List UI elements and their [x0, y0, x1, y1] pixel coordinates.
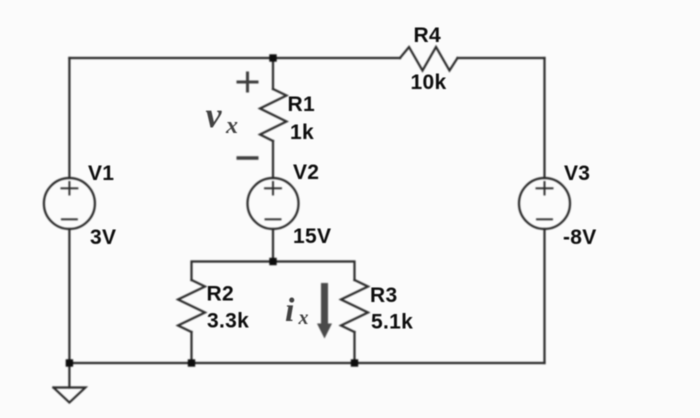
current arrow ix	[317, 283, 332, 339]
junction R2 bottom	[188, 359, 195, 366]
svg-text:1k: 1k	[290, 121, 314, 144]
wire top rail left	[69, 57, 273, 59]
ground stub	[68, 363, 70, 388]
svg-text:i: i	[285, 292, 295, 329]
wire left branch lower	[68, 229, 70, 363]
wire top rail right	[458, 57, 545, 59]
svg-text:x: x	[225, 113, 238, 139]
svg-text:5.1k: 5.1k	[371, 311, 413, 334]
wire R1 to V2	[272, 141, 274, 178]
svg-text:V1: V1	[88, 162, 114, 185]
voltage source V3	[519, 178, 570, 229]
resistor R2	[178, 280, 205, 332]
polarity minus of vx	[237, 156, 259, 160]
svg-text:15V: 15V	[293, 225, 331, 248]
wire R2 bottom lead	[190, 332, 192, 363]
svg-text:10k: 10k	[411, 71, 447, 94]
resistor R3	[341, 280, 368, 332]
wire left branch upper	[68, 58, 70, 178]
svg-text:R1: R1	[288, 93, 315, 116]
svg-text:R2: R2	[207, 283, 234, 306]
wire right branch upper	[543, 58, 545, 178]
junction ground node	[66, 359, 73, 366]
wire top rail middle	[273, 57, 400, 59]
svg-text:R4: R4	[414, 24, 441, 47]
wire right branch lower	[543, 229, 545, 363]
polarity plus of vx	[237, 72, 259, 93]
svg-text:3V: 3V	[90, 226, 116, 249]
svg-text:-8V: -8V	[563, 226, 597, 249]
resistor R1	[260, 89, 287, 141]
svg-text:V3: V3	[564, 162, 590, 185]
svg-text:R3: R3	[370, 284, 397, 307]
voltage source V2	[248, 178, 299, 229]
voltage source V1	[44, 178, 95, 229]
svg-text:V2: V2	[293, 161, 319, 184]
wire V2 to mid rail	[272, 229, 274, 262]
junction R3 bottom	[351, 359, 358, 366]
svg-text:x: x	[298, 307, 309, 329]
wire mid rail	[192, 262, 355, 281]
wire R1 top lead	[272, 58, 274, 89]
ground	[53, 388, 85, 403]
wire bottom rail	[69, 362, 544, 364]
svg-text:v: v	[206, 95, 223, 135]
resistor R4	[400, 47, 458, 71]
node A top junction	[269, 54, 276, 61]
svg-text:3.3k: 3.3k	[207, 310, 249, 333]
node B mid junction (V2 bottom)	[269, 258, 276, 265]
wire R3 bottom lead	[353, 332, 355, 363]
